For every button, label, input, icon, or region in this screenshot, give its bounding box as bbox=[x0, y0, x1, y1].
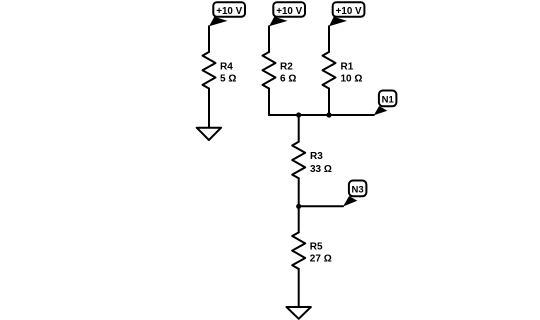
svg-text:5 Ω: 5 Ω bbox=[220, 74, 236, 85]
svg-text:R3: R3 bbox=[310, 151, 323, 162]
voltage flag +10 V (supply for R4) bbox=[209, 2, 245, 26]
wire from R3 bottom to node N3 bbox=[298, 178, 300, 206]
wire from R2 bottom to node N1 bus bbox=[268, 89, 270, 116]
wire from R5 bottom to ground bbox=[298, 269, 300, 307]
node flag N1 bbox=[374, 91, 397, 116]
resistor R5 bbox=[292, 232, 305, 269]
wire from R1 bottom to node N1 bus bbox=[328, 89, 330, 116]
svg-text:R2: R2 bbox=[280, 62, 293, 73]
svg-text:6 Ω: 6 Ω bbox=[280, 74, 296, 85]
wire from R4 bottom to ground bbox=[208, 89, 210, 128]
svg-text:+10 V: +10 V bbox=[276, 6, 302, 17]
resistor R1 bbox=[323, 52, 336, 89]
ground (below R5) bbox=[287, 307, 311, 319]
junction dot at R3 tap on N1 bus bbox=[296, 112, 301, 117]
svg-text:N1: N1 bbox=[382, 95, 395, 106]
voltage flag +10 V (supply for R2) bbox=[269, 2, 305, 26]
wire from +10V flag to R4 top bbox=[208, 26, 210, 52]
svg-text:33 Ω: 33 Ω bbox=[310, 164, 332, 175]
ground (below R4) bbox=[197, 128, 221, 140]
wire: node N1 horizontal bus bbox=[269, 114, 374, 116]
junction dot at R1 connection on N1 bus bbox=[326, 112, 331, 117]
resistor R2 bbox=[263, 52, 276, 89]
svg-text:+10 V: +10 V bbox=[336, 6, 362, 17]
node flag N3 bbox=[343, 181, 366, 207]
svg-text:R5: R5 bbox=[310, 242, 323, 253]
svg-text:N3: N3 bbox=[352, 185, 364, 196]
junction dot at node N3 bbox=[296, 204, 301, 209]
wire: node N3 stub to flag bbox=[299, 205, 343, 207]
resistor R4 bbox=[203, 52, 216, 89]
wire from +10V flag to R2 top bbox=[268, 26, 270, 52]
wire from +10V flag to R1 top bbox=[328, 26, 330, 52]
wire from node N3 down to R5 top bbox=[298, 206, 300, 232]
resistor R3 bbox=[292, 142, 305, 179]
wire from N1 bus down to R3 top bbox=[298, 115, 300, 142]
svg-text:+10 V: +10 V bbox=[216, 6, 242, 17]
svg-text:27 Ω: 27 Ω bbox=[310, 253, 332, 264]
svg-text:R1: R1 bbox=[341, 62, 354, 73]
svg-text:R4: R4 bbox=[220, 62, 233, 73]
svg-text:10 Ω: 10 Ω bbox=[341, 74, 363, 85]
voltage flag +10 V (supply for R1) bbox=[329, 2, 364, 26]
